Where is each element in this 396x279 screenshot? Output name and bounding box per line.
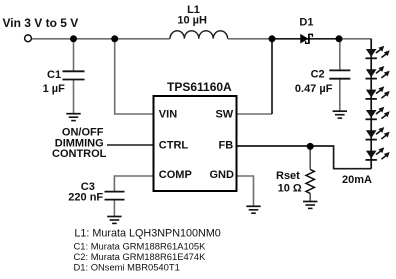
input terminal circle: [25, 35, 32, 42]
wire C2 junction to LED top corner: [339, 38, 371, 40]
svg-text:COMP: COMP: [159, 169, 192, 181]
LED D5: [366, 107, 390, 120]
ground at GND pin: [246, 206, 260, 213]
node junction at VIN drop: [111, 35, 118, 42]
svg-text:C1: Murata GRM188R61A105K: C1: Murata GRM188R61A105K: [74, 241, 207, 252]
svg-text:L1: Murata LQH3NPN100NM0: L1: Murata LQH3NPN100NM0: [74, 227, 220, 239]
wire Rset bottom stem: [309, 193, 311, 201]
wire C1 bottom stem: [73, 80, 75, 114]
svg-text:SW: SW: [215, 108, 233, 120]
svg-text:C2: C2: [311, 69, 325, 81]
op-amp U1 TPS61160A box: [154, 96, 237, 191]
wire Rset top stem: [309, 146, 311, 169]
capacitor C1: [63, 71, 85, 79]
svg-text:0.47 µF: 0.47 µF: [295, 83, 333, 95]
capacitor C2: [329, 70, 350, 78]
wire input Vin to inductor: [32, 38, 170, 40]
wire inductor to SW junction: [228, 38, 272, 40]
ground below C2: [333, 111, 347, 118]
svg-text:VIN: VIN: [159, 108, 177, 120]
node junction at SW/D1: [269, 35, 276, 42]
wire FB to LED bottom: [237, 146, 372, 169]
LED D3: [366, 66, 390, 79]
svg-text:D1: D1: [299, 16, 313, 28]
svg-text:CTRL: CTRL: [159, 139, 189, 151]
svg-text:TPS61160A: TPS61160A: [167, 80, 232, 94]
svg-text:20mA: 20mA: [342, 174, 372, 186]
svg-text:C1: C1: [47, 69, 61, 81]
resistor Rset: [306, 169, 314, 193]
svg-text:Vin 3 V to 5 V: Vin 3 V to 5 V: [3, 16, 79, 30]
wire C2 bottom stem: [339, 79, 341, 111]
wire C1 top stem: [73, 39, 75, 71]
svg-text:10 µH: 10 µH: [177, 15, 207, 27]
LED D4: [366, 86, 390, 99]
svg-text:CONTROL: CONTROL: [52, 148, 107, 160]
wire VIN drop: [115, 39, 154, 114]
svg-text:C2: Murata GRM188R61E474K: C2: Murata GRM188R61E474K: [74, 251, 207, 262]
LED D6: [366, 127, 390, 140]
svg-text:220 nF: 220 nF: [68, 192, 103, 204]
wire LED string vertical: [370, 39, 372, 169]
wire C2 top stem: [339, 39, 341, 71]
svg-text:1 µF: 1 µF: [43, 83, 66, 95]
wire SW stub: [237, 113, 273, 115]
ground below C3: [107, 217, 121, 224]
svg-text:Rset: Rset: [276, 170, 300, 182]
wire GND stub: [237, 176, 254, 206]
capacitor C3: [105, 192, 125, 200]
svg-text:D1: ONsemi MBR0540T1: D1: ONsemi MBR0540T1: [74, 261, 180, 272]
svg-text:GND: GND: [209, 169, 234, 181]
svg-text:10 Ω: 10 Ω: [278, 182, 302, 194]
diode D1: [300, 34, 312, 44]
wire COMP to C3: [114, 176, 153, 191]
wire CTRL: [107, 144, 154, 146]
ground below Rset: [303, 202, 317, 209]
ground below C1: [66, 114, 80, 121]
node junction at FB/Rset: [307, 143, 314, 150]
LED D7: [366, 147, 390, 160]
node junction at C2: [336, 35, 343, 42]
inductor L1: [170, 31, 228, 39]
svg-text:FB: FB: [219, 139, 234, 151]
node junction at C1: [70, 35, 77, 42]
wire diode path: [272, 38, 339, 40]
wire SW vertical: [271, 39, 273, 114]
wire C3 to ground: [113, 200, 115, 216]
LED D2: [366, 46, 390, 59]
